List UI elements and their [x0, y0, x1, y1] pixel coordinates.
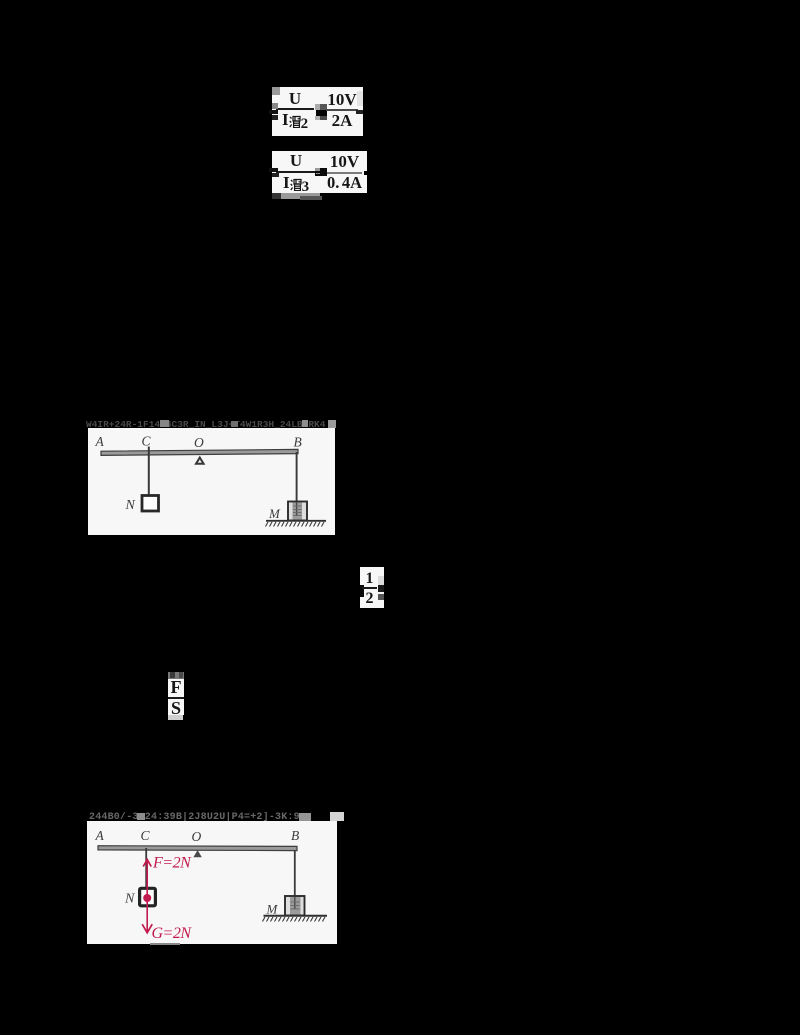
svg-text:M: M [266, 902, 279, 917]
svg-text:G=2N: G=2N [152, 925, 193, 942]
svg-text:B: B [294, 434, 302, 449]
svg-text:N: N [125, 498, 136, 513]
svg-text:B: B [291, 828, 299, 843]
svg-text:M: M [268, 506, 281, 521]
svg-text:O: O [192, 829, 202, 844]
svg-text:C: C [141, 828, 151, 843]
svg-text:N: N [124, 892, 135, 907]
svg-text:C: C [142, 433, 152, 448]
svg-text:A: A [95, 434, 105, 449]
svg-text:F=2N: F=2N [152, 855, 192, 872]
svg-text:O: O [194, 435, 204, 450]
svg-text:A: A [95, 828, 105, 843]
